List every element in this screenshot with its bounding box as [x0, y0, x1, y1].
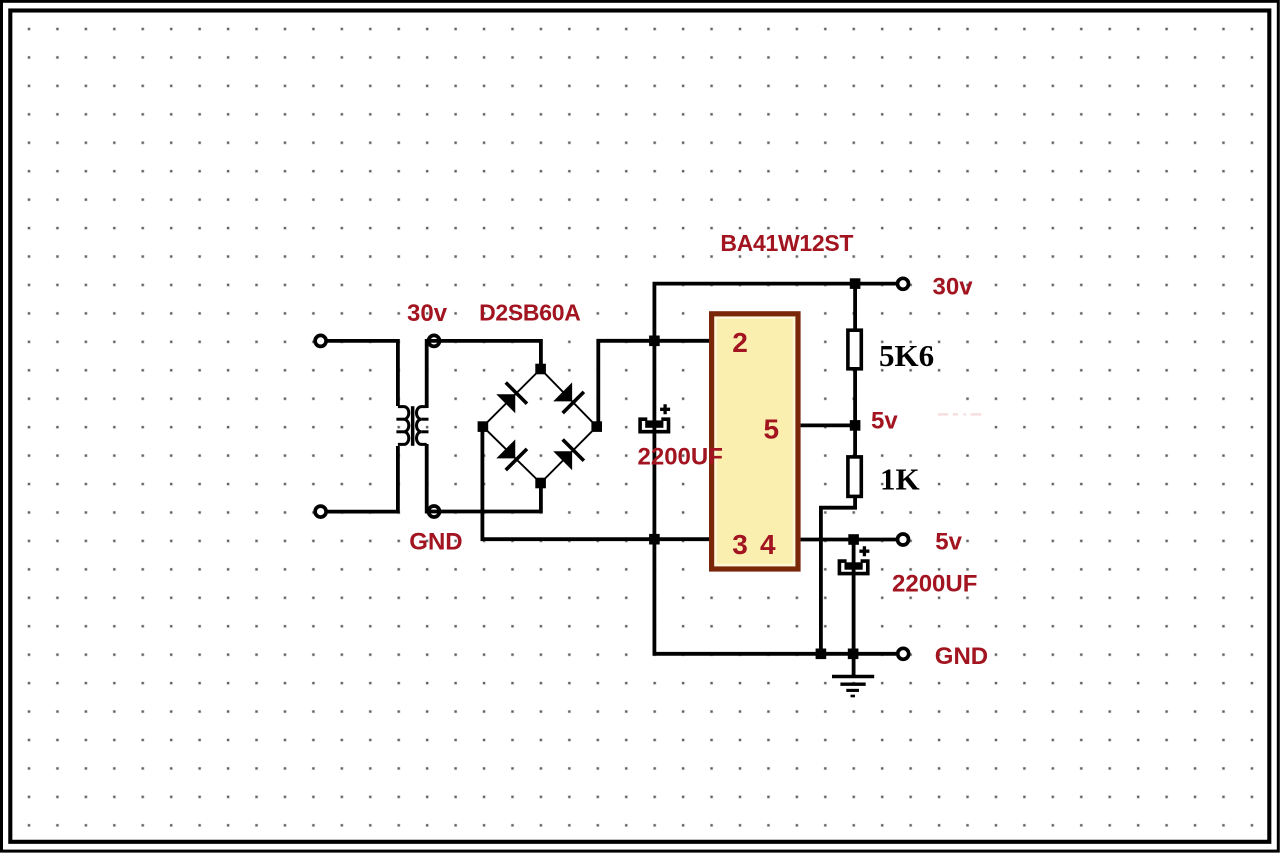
svg-text:5K6: 5K6	[879, 338, 934, 373]
terminal: secondary bottom (GND)	[429, 506, 440, 517]
junction: 5v / pin 5	[850, 420, 861, 431]
svg-text:2200UF: 2200UF	[638, 443, 723, 470]
junction: 30v rail / 5K6	[850, 278, 861, 289]
transformer T1 secondary winding	[416, 407, 428, 445]
svg-text:5: 5	[764, 413, 780, 444]
wire: 5v junction down through C2 to GND and ground symbol	[852, 540, 856, 676]
wire: IC pin 5 to 5v junction	[801, 423, 856, 427]
svg-text:30v: 30v	[407, 300, 448, 327]
terminal: input bottom	[315, 506, 326, 517]
junction: bridge right vertex	[591, 421, 602, 432]
diode D4 (bottom vertex to right vertex)	[552, 440, 584, 472]
wire: 5K6 bottom through 5v junction to 1K top	[853, 369, 857, 458]
transformer T1 primary winding	[396, 407, 408, 445]
terminal: 30v output	[898, 278, 909, 289]
bridge rectifier D2SB60A sides	[483, 369, 597, 483]
IC U1 BA41W12ST body	[712, 314, 798, 569]
junction: bridge top vertex	[535, 364, 546, 375]
svg-text:2200UF: 2200UF	[892, 571, 977, 598]
svg-text:5v: 5v	[871, 408, 898, 435]
svg-text:2: 2	[732, 327, 748, 358]
svg-text:4: 4	[760, 529, 776, 560]
resistor R2 1K	[848, 457, 861, 497]
junction: pin2 / main vertical	[649, 336, 660, 347]
terminal: secondary top (30v)	[429, 335, 440, 346]
junction: pin4 / C2	[848, 534, 859, 545]
transformer T1 core	[411, 406, 415, 446]
wire: 30v rail, main vertical, GND rail	[654, 284, 896, 654]
svg-text:D2SB60A: D2SB60A	[479, 300, 580, 326]
capacitor C2 2200UF (output)	[839, 546, 869, 573]
terminal: input top	[315, 335, 326, 346]
junction: bridge left vertex	[478, 421, 489, 432]
wire: primary top lead	[328, 341, 398, 406]
svg-text:1K: 1K	[880, 462, 920, 497]
wire: bridge - output to IC pin 3	[482, 429, 709, 539]
svg-text:5v: 5v	[935, 529, 962, 556]
svg-text:GND: GND	[409, 528, 462, 555]
junction: pin3 / main vertical	[649, 534, 660, 545]
junction: 1K jog / GND rail	[816, 649, 827, 660]
diode D3 (left vertex to bottom vertex)	[495, 438, 527, 470]
ground symbol	[832, 677, 874, 697]
wire: 30v rail to 5K6 top	[853, 284, 857, 331]
wire: secondary bottom to bridge AC-	[427, 444, 541, 512]
diode D1 (left vertex to top vertex)	[495, 383, 527, 415]
terminal: GND output	[898, 648, 909, 659]
svg-text:30v: 30v	[933, 274, 974, 301]
junction: C2 / GND rail	[848, 649, 859, 660]
wire: 1K bottom jog to GND rail	[821, 496, 855, 654]
resistor R1 5K6	[848, 330, 861, 369]
wire: bridge + output to IC pin 2	[598, 341, 709, 425]
wire: IC pin 4 to 5v terminal	[801, 538, 896, 542]
wire: secondary top to bridge AC+	[427, 341, 541, 408]
svg-text:BA41W12ST: BA41W12ST	[720, 230, 853, 256]
capacitor C1 2200UF (on main vertical)	[640, 404, 670, 431]
wire: primary bottom lead	[328, 446, 398, 512]
svg-text:GND: GND	[935, 643, 988, 670]
diode D2 (top vertex to right vertex)	[552, 381, 584, 413]
junction: bridge bottom vertex	[535, 478, 546, 489]
svg-text:3: 3	[732, 529, 748, 560]
terminal: 5v output	[898, 534, 909, 545]
